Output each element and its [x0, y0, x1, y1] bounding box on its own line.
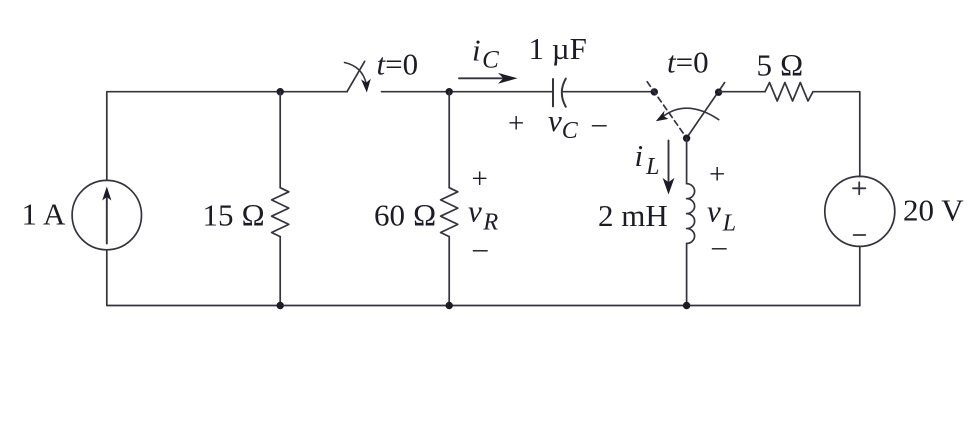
node dot: bottom of 15 ohm branch [277, 302, 284, 309]
switch S2 moving-arc arrow [656, 108, 719, 121]
wire: switch S1 to capacitor [382, 91, 554, 93]
wire: top-left rail from current source to switch S1 [107, 92, 347, 180]
wire: 5 ohm to 20V source top [813, 92, 860, 177]
svg-text:1 µF: 1 µF [529, 31, 587, 66]
svg-text:iC: iC [472, 33, 499, 74]
capacitor C1 right curved plate [562, 79, 566, 107]
node dot: bottom of 60 ohm branch [446, 302, 453, 309]
svg-text:–: – [711, 231, 727, 263]
voltage source V1 minus mark [854, 234, 866, 236]
svg-text:–: – [472, 233, 488, 265]
wire: bottom rail from 20V source corner to current source [107, 250, 860, 305]
svg-text:1 A: 1 A [22, 197, 67, 232]
resistor R1 (15 ohm) zigzag [272, 188, 289, 237]
switch S2 solid blade [687, 83, 725, 138]
node dot: switch S2 right contact [715, 89, 722, 96]
svg-text:t=0: t=0 [667, 45, 709, 80]
resistor R3 (5 ohm) zigzag [765, 83, 813, 102]
resistor R2 (60 ohm) zigzag [441, 188, 458, 237]
node dot: bottom of inductor branch [683, 302, 690, 309]
switch S1 blade [347, 61, 365, 91]
node dot: top of 15 ohm branch [277, 88, 284, 95]
node dot: capacitor side of switch S2 [651, 88, 658, 95]
wire: 60 ohm branch top [448, 92, 450, 188]
svg-text:vC: vC [548, 103, 579, 144]
svg-text:+: + [508, 108, 524, 140]
svg-text:iL: iL [635, 138, 660, 180]
svg-text:20 V: 20 V [903, 193, 964, 228]
wire: inductor to bottom rail [686, 244, 688, 306]
current source I1 arrow [102, 187, 111, 244]
switch S2 pivot node dot [683, 135, 690, 142]
voltage source V1 (20 V) circle [825, 176, 895, 246]
current arrow iC [459, 73, 518, 84]
wire: 15 ohm branch top [279, 92, 281, 188]
wire: switch S2 contact to 5 ohm resistor [719, 91, 765, 93]
current source I1 (1 A) circle [72, 180, 141, 249]
current arrow iL [663, 141, 675, 195]
inductor L1 (2 mH) coil [687, 184, 695, 244]
svg-text:–: – [591, 108, 607, 140]
voltage source V1 plus mark [853, 182, 865, 194]
wire: switch S2 pivot to inductor [686, 138, 688, 184]
wire: capacitor to switch S2 node [563, 91, 655, 93]
wire: 15 ohm branch bottom [279, 237, 281, 306]
svg-text:60 Ω: 60 Ω [374, 198, 437, 233]
svg-text:+: + [472, 163, 488, 195]
node dot: top of 60 ohm branch [446, 88, 453, 95]
switch S1 opening-arc arrow [345, 63, 371, 93]
svg-text:2 mH: 2 mH [598, 198, 668, 233]
svg-text:+: + [709, 159, 725, 191]
svg-text:5 Ω: 5 Ω [757, 48, 804, 83]
capacitor C1 left plate [552, 79, 554, 106]
svg-text:15 Ω: 15 Ω [203, 198, 266, 233]
svg-text:t=0: t=0 [377, 47, 419, 82]
wire: 20V source bottom to bottom rail [859, 246, 861, 305]
switch S2 dashed (previous) blade position [647, 82, 686, 138]
svg-text:vR: vR [468, 194, 498, 236]
wire: 60 ohm branch bottom [448, 237, 450, 306]
